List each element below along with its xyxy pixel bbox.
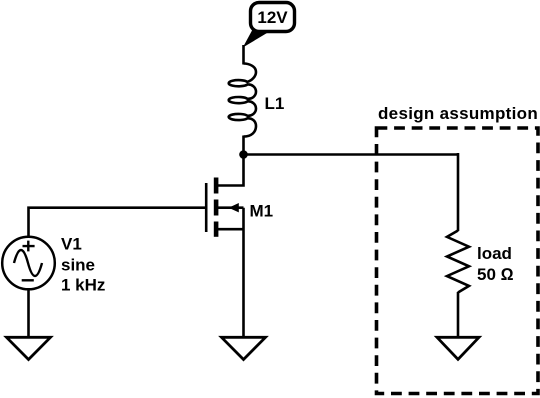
transistor M1 channel bar (bulk): [214, 200, 219, 216]
svg-text:1 kHz: 1 kHz: [61, 276, 105, 295]
power label 12V callout tail: [243, 31, 270, 48]
node junction dot: [239, 150, 248, 159]
ground under V1: [7, 337, 51, 359]
wire node to load branch (horizontal): [244, 153, 459, 156]
wire 12V tail to inductor L1 top: [242, 45, 245, 65]
transistor M1 channel bar (source): [214, 222, 219, 237]
svg-text:12V: 12V: [257, 8, 288, 27]
wire node down to M1 drain: [218, 155, 244, 186]
transistor M1 channel bar (drain): [214, 178, 219, 194]
svg-text:M1: M1: [250, 202, 274, 221]
ground under M1: [222, 337, 266, 359]
transistor M1 arrow head: [229, 203, 239, 212]
wire load resistor to ground: [457, 292, 460, 337]
source V1 sine wave: [14, 250, 42, 276]
wire to load resistor top: [457, 153, 460, 231]
svg-text:L1: L1: [265, 94, 285, 113]
wire M1 source to ground: [242, 208, 245, 337]
transistor M1 bulk wire with arrow: [218, 206, 244, 209]
design assumption dashed box: [377, 128, 539, 394]
source V1 circle: [2, 237, 55, 290]
inductor L1: [229, 64, 256, 137]
transistor M1 gate line: [205, 183, 208, 232]
svg-text:load: load: [477, 244, 512, 263]
wire V1 to ground: [27, 289, 30, 337]
ground under load: [437, 337, 479, 359]
source V1 plus sign: [23, 241, 35, 252]
wire inductor bottom to node: [242, 136, 245, 155]
svg-text:sine: sine: [61, 256, 95, 275]
resistor load 50 ohm: [447, 231, 469, 293]
power label 12V callout box: [251, 3, 295, 32]
source V1 minus sign: [22, 279, 34, 281]
svg-text:V1: V1: [61, 235, 82, 254]
svg-text:50 Ω: 50 Ω: [477, 265, 514, 284]
svg-text:design assumption: design assumption: [378, 104, 538, 123]
wire gate to V1: [29, 208, 207, 238]
transistor M1 source wire: [218, 228, 244, 231]
